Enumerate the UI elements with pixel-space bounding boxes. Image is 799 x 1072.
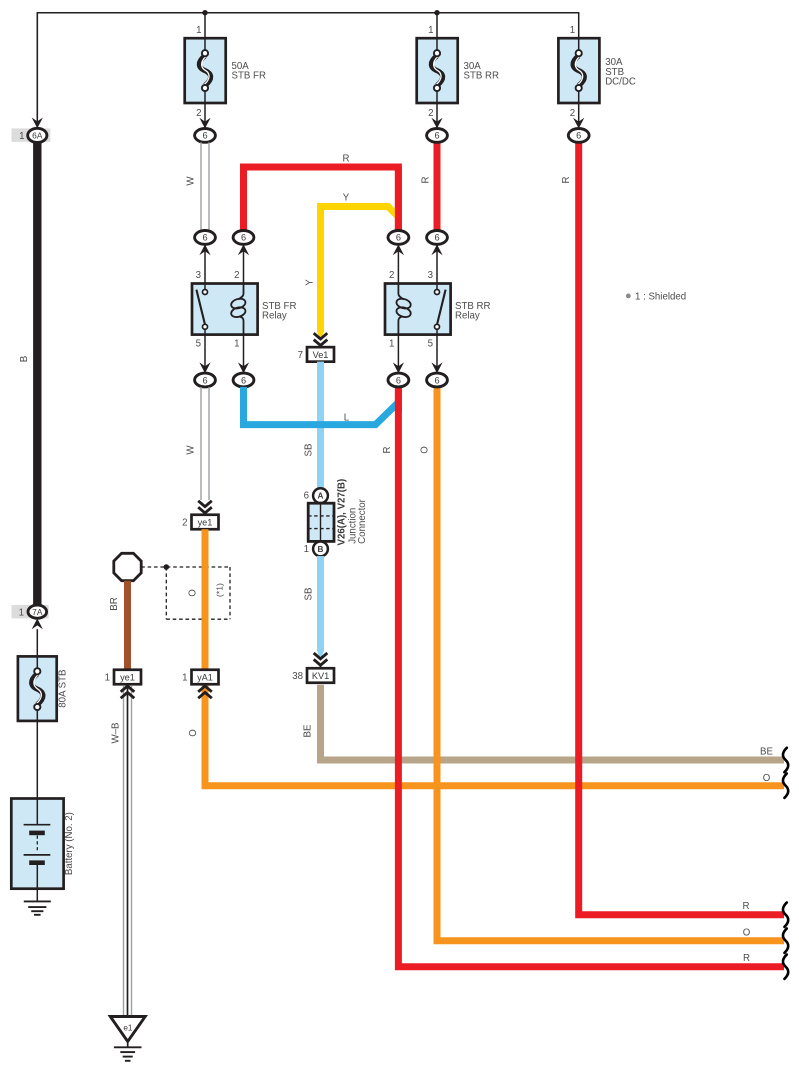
svg-text:38: 38 <box>292 671 303 682</box>
connector oval 6 (FR pin1 out) <box>233 373 254 387</box>
connector oval 6 (FR relay pin2 in) <box>233 231 254 245</box>
svg-text:1: 1 <box>570 25 575 36</box>
wire R: fuse3 long red down, right to edge <box>579 142 784 914</box>
wire: oval to RR relay pin3 <box>436 244 438 283</box>
svg-text:SB: SB <box>304 444 315 457</box>
svg-text:6: 6 <box>304 491 309 502</box>
SB wire arrow tip <box>317 651 324 661</box>
svg-text:ye1: ye1 <box>198 517 213 527</box>
svg-text:1: 1 <box>304 544 309 555</box>
svg-text:R: R <box>421 177 432 184</box>
wire: drop to fuse 30A STB RR <box>436 13 438 39</box>
svg-text:W: W <box>186 176 197 186</box>
dashed shield box <box>165 567 167 619</box>
wire: RR pin2 oval to relay <box>397 244 399 283</box>
svg-text:7A: 7A <box>32 607 43 617</box>
svg-text:2: 2 <box>428 108 433 119</box>
svg-text:R: R <box>561 177 572 184</box>
wire R: red feed from fuse1 connector to both relay coils <box>244 167 399 231</box>
svg-text:STB FR: STB FR <box>232 71 266 82</box>
wire W: FR pin5 oval down to ye1 (white) <box>200 387 202 500</box>
svg-text:W: W <box>186 445 197 455</box>
svg-text:BE: BE <box>760 747 773 758</box>
svg-text:6: 6 <box>202 131 207 141</box>
relay STB FR <box>192 284 258 335</box>
wire L: FR pin1 to RR pin1 red riser <box>244 387 399 425</box>
wire R: RR relay pin1 down, right to edge <box>398 387 784 967</box>
arrow up into oval (RR pin3) <box>431 244 442 255</box>
svg-text:2: 2 <box>196 108 201 119</box>
svg-text:6: 6 <box>434 131 439 141</box>
chevron arrows into ye1 (2) <box>198 501 212 507</box>
RR relay coil <box>398 284 403 300</box>
arrow up into oval (from relay pin 3) <box>199 244 210 255</box>
arrow down into oval (FR pin5) <box>199 362 210 373</box>
chevron arrows below yA1 <box>198 692 212 698</box>
note *1 : Shielded <box>626 294 631 299</box>
svg-text:Y: Y <box>343 193 350 204</box>
arrow down into oval (RR pin5) <box>431 362 442 373</box>
wire: FR pin5 down to oval <box>204 335 206 374</box>
connector 38 KV1 <box>307 668 334 683</box>
svg-text:6: 6 <box>434 375 439 385</box>
fuse 50A STB FR <box>185 38 226 103</box>
junction dot on shield line <box>164 564 170 570</box>
relay STB RR <box>385 284 451 335</box>
svg-text:BE: BE <box>303 724 314 737</box>
svg-text:yA1: yA1 <box>197 672 213 682</box>
svg-text:O: O <box>763 773 771 784</box>
svg-text:Connector: Connector <box>357 498 368 543</box>
squiggle end R upper <box>783 903 788 927</box>
battery (No. 2) <box>11 799 63 889</box>
svg-text:1: 1 <box>428 25 433 36</box>
red riser overlap above L junction <box>395 387 402 412</box>
junction dot at fuse 50A tap <box>202 10 207 15</box>
connector oval 6 (RR relay pin3 in) <box>427 231 448 245</box>
svg-text:B: B <box>318 545 324 554</box>
connector 1 yA1 <box>192 670 219 685</box>
arrow into oval below fuse2 <box>431 118 442 129</box>
svg-text:1: 1 <box>19 608 24 619</box>
svg-text:Relay: Relay <box>262 311 287 322</box>
svg-text:(*1): (*1) <box>215 583 225 597</box>
yellow wire arrow tip <box>317 331 324 341</box>
squiggle end O middle <box>783 929 788 953</box>
ground below battery <box>24 900 51 902</box>
connector oval 6 (RR pin5 out) <box>427 373 448 387</box>
svg-text:2: 2 <box>570 108 575 119</box>
svg-text:2: 2 <box>234 270 239 281</box>
connector oval 6 (fuse2 out) <box>427 129 448 143</box>
wire W-B: ye1 down to ground e1 <box>123 686 125 1017</box>
svg-text:STB RR: STB RR <box>464 71 500 82</box>
wire: fuse3 pin2 to connector <box>578 103 580 129</box>
RR relay switch contacts <box>437 290 446 327</box>
svg-text:7: 7 <box>298 350 303 361</box>
connector oval 6 (fuse3 out) <box>568 129 589 143</box>
wire: drop to fuse 50A STB FR <box>204 13 206 39</box>
wire: RR pin5 down to oval <box>436 335 438 374</box>
connector 6A <box>28 128 47 142</box>
svg-text:Battery (No. 2): Battery (No. 2) <box>64 812 75 875</box>
svg-text:6: 6 <box>241 233 246 243</box>
wire: fuse2 pin2 to connector <box>436 103 438 129</box>
svg-text:e1: e1 <box>123 1024 133 1033</box>
svg-text:3: 3 <box>428 270 433 281</box>
svg-text:6A: 6A <box>32 131 43 141</box>
svg-text:R: R <box>382 447 393 454</box>
svg-text:1: 1 <box>196 25 201 36</box>
FR relay switch contacts <box>196 290 205 327</box>
svg-text:SB: SB <box>304 588 315 601</box>
connector oval 6 (FR relay pin3 in) <box>195 231 216 245</box>
svg-text:3: 3 <box>196 270 201 281</box>
connector 2 ye1 <box>192 515 219 530</box>
svg-text:5: 5 <box>428 338 433 349</box>
wire SB: junction connector down to KV1 <box>317 556 324 651</box>
wire BR: octagon to ye1 <box>124 581 131 670</box>
svg-text:O: O <box>188 729 199 737</box>
connector oval 6 (fuse1 out) <box>195 129 216 143</box>
wire: fuse1 pin2 to connector <box>204 103 206 129</box>
ground e1 triangle <box>110 1017 145 1042</box>
svg-text:6: 6 <box>396 233 401 243</box>
wire B: thick battery cable <box>33 142 41 605</box>
wire: FR pin1 down to oval <box>243 335 245 374</box>
svg-text:O: O <box>743 928 751 939</box>
squiggle end O <box>783 774 788 798</box>
junction connector circle B <box>313 542 328 557</box>
arrow into oval below fuse3 <box>573 118 584 129</box>
arrow up into oval (RR pin2) <box>393 244 404 255</box>
FR relay coil <box>238 284 243 300</box>
svg-text:1 : Shielded: 1 : Shielded <box>635 291 686 302</box>
svg-text:6: 6 <box>576 131 581 141</box>
connector 1 ye1 <box>114 670 141 685</box>
fuse 30A STB DC/DC <box>558 38 599 103</box>
svg-text:O: O <box>188 589 199 597</box>
junction connector V26/V27 body <box>308 503 334 541</box>
junction connector circle A <box>313 488 328 503</box>
fuse 30A STB RR <box>417 38 458 103</box>
wire R: fuse2 to RR relay pin3 <box>434 142 441 231</box>
wire O: ye1 down to yA1 <box>202 529 209 670</box>
wire: RR pin1 down to oval <box>397 335 399 374</box>
squiggle end BE <box>783 748 788 772</box>
svg-text:W–B: W–B <box>111 723 122 744</box>
svg-text:KV1: KV1 <box>312 671 329 681</box>
chevron arrows below ye1 <box>121 692 135 698</box>
squiggle end R bottom <box>783 955 788 979</box>
svg-text:1: 1 <box>389 338 394 349</box>
svg-text:2: 2 <box>182 517 187 528</box>
svg-text:Y: Y <box>305 279 316 286</box>
arrow up into connector 7A <box>32 619 43 630</box>
octagon component <box>114 553 141 580</box>
arrow into oval 6 below fuse1 <box>199 118 210 129</box>
wire W: fuse to relay connector (white) <box>200 142 202 230</box>
fuse 80A STB <box>18 656 57 721</box>
svg-text:6: 6 <box>202 233 207 243</box>
wire Y: yellow branch to Ve1 <box>321 207 400 333</box>
connector 7A <box>28 605 47 618</box>
svg-text:BR: BR <box>109 597 120 610</box>
wire SB: Ve1 down to junction connector <box>317 362 324 489</box>
connector oval 6 (RR relay pin2 in) <box>388 231 409 245</box>
chevron arrows into Ve1 <box>314 333 328 339</box>
svg-text:L: L <box>344 412 350 423</box>
junction dot at fuse 30A STB RR tap <box>434 10 439 15</box>
connector 7A label background <box>12 605 49 619</box>
arrow down into oval (FR pin1) <box>238 362 249 373</box>
arrow up into oval (from FR relay pin 2) <box>238 244 249 255</box>
svg-text:6: 6 <box>202 375 207 385</box>
svg-text:1: 1 <box>182 672 187 683</box>
svg-text:V26(A), V27(B): V26(A), V27(B) <box>337 479 348 546</box>
wire: oval to relay pin 3 <box>204 244 206 283</box>
dashed shield link line <box>141 566 230 568</box>
ground symbol e1 <box>127 1042 129 1048</box>
svg-text:ye1: ye1 <box>120 672 135 682</box>
svg-text:R: R <box>743 953 750 964</box>
wire BE: KV1 to right edge <box>321 685 785 760</box>
svg-text:6: 6 <box>434 233 439 243</box>
svg-text:1: 1 <box>234 338 239 349</box>
connector oval 6 (RR pin1 out) <box>388 373 409 387</box>
connector Ve1 <box>307 347 334 362</box>
wire to 80A STB fuse <box>36 629 38 658</box>
svg-text:DC/DC: DC/DC <box>605 77 636 88</box>
wire: top power rail from battery feed <box>37 13 578 118</box>
svg-text:A: A <box>318 492 324 501</box>
wire O: yA1 down and right to edge <box>205 685 784 786</box>
svg-text:6: 6 <box>396 375 401 385</box>
svg-text:6: 6 <box>241 375 246 385</box>
chevron arrows into KV1 <box>314 653 328 659</box>
wire: drop from rail to connector 6A <box>36 13 38 129</box>
connector oval 6 (FR pin5 out) <box>195 373 216 387</box>
arrow into connector 6A <box>32 118 43 129</box>
wire: oval to FR relay pin 2 <box>243 244 245 283</box>
connector 6A label background <box>12 128 51 142</box>
svg-text:2: 2 <box>389 270 394 281</box>
svg-text:Ve1: Ve1 <box>313 350 329 360</box>
svg-text:R: R <box>743 901 750 912</box>
svg-text:Relay: Relay <box>455 311 480 322</box>
svg-text:1: 1 <box>105 672 110 683</box>
svg-text:B: B <box>19 356 30 362</box>
svg-text:5: 5 <box>196 338 201 349</box>
wire O: RR relay pin5 down, right to edge <box>437 387 784 941</box>
wire R vertical overlap <box>395 167 402 231</box>
arrow down into oval (RR pin1) <box>393 362 404 373</box>
svg-text:1: 1 <box>19 131 24 142</box>
svg-text:R: R <box>343 154 350 165</box>
svg-text:80A STB: 80A STB <box>58 669 69 707</box>
svg-text:O: O <box>420 446 431 454</box>
